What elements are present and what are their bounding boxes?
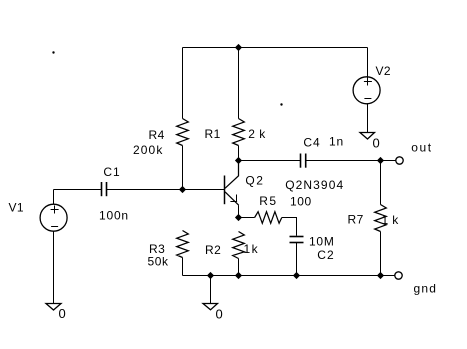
svg-text:0: 0 [216,307,224,322]
svg-text:100n: 100n [99,209,129,223]
wire R2 bottom lead [238,259,240,276]
wire C4 to out terminal [306,160,396,162]
svg-text:V1: V1 [9,201,24,215]
wire left rail to R4 [182,48,184,119]
svg-text:1k: 1k [244,242,260,256]
wire C1 to base node [107,189,224,191]
svg-text:0: 0 [59,306,67,321]
svg-text:10M: 10M [309,235,335,249]
svg-text:C1: C1 [103,165,120,179]
node R7 bottom junction [377,272,384,279]
wire V1 top lead [53,190,55,205]
wire top rail [183,47,368,49]
svg-text:out: out [411,141,432,155]
svg-text:R7: R7 [348,213,364,227]
node C2 bottom junction [293,272,300,279]
svg-text:gnd: gnd [414,282,438,296]
svg-text:0: 0 [373,136,381,151]
svg-text:C4: C4 [303,136,320,150]
resistor R4 [177,119,189,146]
voltage source V2 [353,77,380,104]
voltage source V1 [40,204,67,231]
svg-text:50k: 50k [148,255,170,269]
svg-text:V2: V2 [376,64,391,78]
wire V2 top lead [367,48,369,78]
wire R5 to C2 [282,218,297,236]
svg-text:C2: C2 [317,248,335,262]
ground under V2 [360,133,375,140]
node emitter junction [235,214,242,221]
wire collector to C4 [239,160,301,162]
svg-text:R5: R5 [259,194,277,208]
wire C2 bottom lead [296,243,298,276]
wire R1 bottom lead [238,146,240,161]
wire mid-ground stem [210,276,212,304]
ground mid [203,304,218,310]
wire R3 bottom lead [182,258,184,276]
wire R7 bottom lead [380,232,382,276]
terminal gnd [395,272,402,279]
wire C1 left lead [54,189,102,191]
node mid-ground junction [207,272,214,279]
wire R4 bottom lead [182,146,184,190]
node collector junction [235,157,242,164]
svg-text:Q2N3904: Q2N3904 [285,178,344,192]
node R2 bottom junction [235,272,242,279]
svg-text:1 k: 1 k [382,213,400,227]
resistor R7 [375,205,387,232]
resistor R5 [255,212,282,224]
svg-text:Q2: Q2 [245,174,264,188]
node out junction [377,157,384,164]
transistor Q2 [225,161,239,218]
capacitor C1 [101,182,103,196]
svg-text:1n: 1n [329,135,344,149]
wire V2 bottom lead [367,104,369,133]
svg-text:R1: R1 [205,127,221,141]
wire emitter to R5 [239,217,255,219]
svg-text:2 k: 2 k [248,127,266,141]
wire R7 top lead [380,161,382,205]
resistor R1 [233,119,245,146]
resistor R2 [233,232,245,259]
capacitor C4 [300,154,302,168]
node top junction [235,44,242,51]
wire V1 bottom lead [53,231,55,303]
ground under V1 [46,304,61,311]
terminal out [396,157,403,164]
svg-text:100: 100 [290,195,312,209]
capacitor C2 [290,236,304,238]
wire R1 top lead [238,48,240,119]
node base junction [179,186,186,193]
resistor R3 [177,231,189,258]
svg-text:200k: 200k [133,143,163,157]
wire bottom rail [183,275,395,277]
svg-text:R2: R2 [205,243,221,257]
svg-text:R4: R4 [149,128,165,142]
